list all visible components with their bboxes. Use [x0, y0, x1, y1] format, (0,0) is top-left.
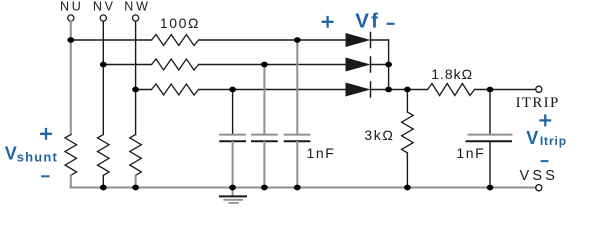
junction row3-C4	[487, 87, 494, 93]
capacitor C4 bottom plate	[467, 140, 512, 142]
svg-text:ITRIP: ITRIP	[516, 95, 560, 111]
wire R_U bottom to rail (gray)	[70, 175, 72, 187]
wire C4 bottom to VSS rail	[489, 142, 491, 188]
terminal ITRIP circle	[536, 86, 542, 92]
junction row2-C2	[261, 62, 268, 68]
node VItrip plus label	[541, 116, 551, 126]
junction rail-C2	[261, 185, 268, 191]
node Vshunt plus label	[41, 129, 51, 139]
svg-text:100Ω: 100Ω	[160, 15, 200, 31]
wire C1 bottom to rail (gray)	[232, 142, 234, 188]
wire row3 from R3 to diode D3 anode	[199, 89, 346, 91]
capacitor C3: wire from row1 junction down (gray)	[296, 40, 298, 134]
capacitor C4 top plate (gray)	[469, 134, 512, 136]
resistor R5 3k body	[402, 112, 414, 153]
wire R5 bottom to VSS rail	[406, 153, 408, 188]
diode D1	[346, 33, 371, 47]
junction row1-NU	[67, 37, 74, 43]
resistor R5 3k: wire from row3 down	[406, 90, 408, 113]
svg-text:1.8kΩ: 1.8kΩ	[431, 66, 473, 82]
wire D1 cathode to Vf bus	[371, 39, 389, 41]
wire D3 cathode to Vf bus	[371, 89, 389, 91]
svg-text:VSS: VSS	[519, 168, 558, 184]
junction rail-C4	[487, 185, 494, 191]
junction rail-ground	[229, 185, 236, 191]
wire VSS bottom rail (gray)	[71, 187, 536, 189]
terminal NV circle	[100, 15, 106, 21]
wire R_W bottom to rail (gray)	[135, 175, 137, 187]
junction rail-R5	[404, 185, 411, 191]
ground bar 1	[220, 195, 246, 197]
wire D2 cathode to Vf bus	[371, 64, 389, 66]
svg-text:Vf: Vf	[355, 10, 380, 33]
wire C3 bottom to rail (gray)	[296, 142, 298, 188]
wire row3 left segment NW to R3	[136, 89, 152, 91]
junction row3-C1	[229, 87, 236, 93]
junction bus-D2	[385, 62, 392, 68]
junction rail-C3	[294, 185, 301, 191]
resistor R3 100 ohm body	[152, 84, 199, 95]
resistor R_W shunt body	[130, 135, 142, 176]
terminal NU circle	[68, 15, 74, 21]
wire row2 left segment NV to R2	[103, 64, 151, 66]
wire R4 to ITRIP junction	[475, 89, 490, 91]
junction row1-C3	[294, 37, 301, 43]
capacitor C3 bottom plate	[285, 140, 310, 142]
diode D2 cathode bar	[370, 57, 372, 72]
resistor R_V shunt body	[98, 135, 110, 176]
diode D3	[346, 83, 371, 97]
diode D3 cathode bar	[370, 82, 372, 97]
resistor R2 100 ohm body	[152, 59, 199, 70]
svg-text:1nF: 1nF	[456, 145, 485, 161]
svg-text:NV: NV	[93, 0, 116, 14]
capacitor C1 top plate (gray)	[220, 134, 245, 136]
ground bar 2 (gray)	[224, 199, 242, 201]
junction row3-R5	[404, 87, 411, 93]
resistor R4 1.8k body	[428, 84, 475, 96]
node Vf minus label	[388, 23, 394, 25]
capacitor C1: wire from row3 junction down (black)	[232, 90, 234, 135]
resistor R_U shunt body	[65, 135, 77, 176]
capacitor C2: wire from row2 junction down (gray)	[263, 65, 265, 135]
wire ITRIP junction to ITRIP terminal	[490, 89, 536, 91]
wire Vf bus to node A	[389, 89, 428, 91]
wire NW vertical from terminal to shunt resistor R_W	[135, 21, 137, 134]
svg-text:3kΩ: 3kΩ	[364, 127, 394, 143]
svg-text:NW: NW	[124, 0, 150, 14]
wire row1 from R1 to diode D1 anode	[199, 39, 346, 41]
wire R_V bottom to rail	[102, 175, 104, 187]
wire NV vertical from terminal to shunt resistor R_V	[102, 21, 104, 134]
terminal NW circle	[133, 15, 139, 21]
wire C2 bottom to rail (gray)	[263, 142, 265, 188]
wire row1 left segment NU to R1	[71, 39, 152, 41]
junction row3-NW	[132, 87, 139, 93]
node VItrip minus label	[542, 160, 548, 162]
ground bar 3 (gray)	[229, 202, 238, 204]
diode D2	[346, 58, 371, 72]
svg-text:1nF: 1nF	[307, 145, 336, 161]
node Vf plus label	[323, 17, 333, 27]
junction rail-RW	[132, 185, 139, 191]
wire row2 from R2 to diode D2 anode	[199, 64, 346, 66]
svg-text:NU: NU	[60, 0, 84, 14]
junction rail-RV	[100, 185, 107, 191]
node Vshunt minus label	[42, 175, 48, 177]
ground stub (gray)	[232, 188, 234, 196]
capacitor C2 bottom plate	[252, 140, 277, 142]
capacitor C2 top plate (gray)	[252, 134, 277, 136]
wire NU vertical (gray) from terminal to shunt resistor R_U	[70, 21, 72, 134]
junction bus-row3	[385, 87, 392, 93]
wire Vf bus vertical	[388, 40, 390, 90]
junction row2-NV	[100, 62, 107, 68]
terminal VSS circle	[536, 185, 542, 191]
capacitor C1 bottom plate	[220, 140, 245, 142]
capacitor C3 top plate (gray)	[285, 134, 310, 136]
capacitor C4 1nF: wire from ITRIP junction down	[489, 90, 491, 135]
resistor R1 100 ohm body	[152, 35, 199, 46]
diode D1 cathode bar	[370, 33, 372, 48]
